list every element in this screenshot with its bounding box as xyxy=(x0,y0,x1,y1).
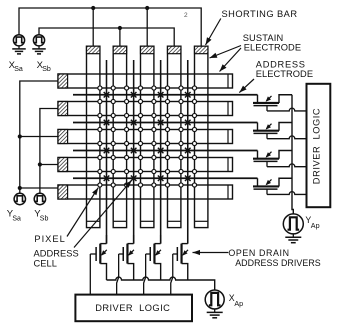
shorting bar hatched cap, column 2 xyxy=(113,46,126,54)
right pad line, row 1 xyxy=(227,74,229,88)
svg-text:Sb: Sb xyxy=(40,216,49,223)
wire drop to column 1 cap xyxy=(92,8,94,46)
right pad line, row 3 xyxy=(227,130,229,144)
pulse source YAp xyxy=(283,214,303,234)
wire source bus to YAp (vertical, with hops over gate wires) xyxy=(292,95,293,214)
address electrode column 3 (thin vertical wire) xyxy=(160,60,162,244)
svg-text:Ap: Ap xyxy=(234,299,243,308)
transistor Q1 (right open-drain driver, row 1) xyxy=(253,95,307,111)
bottom pad line, column 3 xyxy=(141,220,154,222)
hatched cap, row 3 xyxy=(58,130,68,144)
address electrode column 1 (thin vertical wire) xyxy=(106,60,108,244)
pixels (small circles at electrode edge crossings) xyxy=(98,86,102,90)
sustain electrode column 3 (vertical bar) xyxy=(141,46,154,227)
hatched cap, row 4 xyxy=(58,158,68,172)
svg-text:DRIVER LOGIC: DRIVER LOGIC xyxy=(312,108,322,184)
bottom pad line, column 5 xyxy=(195,220,208,222)
svg-text:Sa: Sa xyxy=(12,216,21,223)
driver logic box (right) xyxy=(307,84,331,207)
transistor Q4 (right open-drain driver, row 4) xyxy=(253,178,307,194)
driver logic box (bottom) xyxy=(75,295,192,322)
svg-text:Sb: Sb xyxy=(42,66,51,73)
svg-text:ADDRESS DRIVERS: ADDRESS DRIVERS xyxy=(235,258,321,268)
sustain electrode row 1 (horizontal bar) xyxy=(58,74,233,88)
shorting bar hatched cap, column 5 xyxy=(195,46,208,54)
wire to row 4 cap xyxy=(40,164,58,166)
wire Y sustain bus A (YSa to odd rows) xyxy=(20,81,58,193)
node bus B / row 4 xyxy=(38,162,42,166)
transistor Q3 (right open-drain driver, row 3) xyxy=(253,151,307,167)
sustain electrode column 1 (vertical bar) xyxy=(87,46,100,227)
wire X sustain bus A (XSa to odd columns) xyxy=(19,8,201,46)
address electrode row 3 (thin horizontal wire) xyxy=(73,150,258,152)
node bus A / row 3 xyxy=(18,134,22,138)
hatched cap, row 5 xyxy=(58,185,68,199)
svg-text:Ap: Ap xyxy=(311,221,320,230)
address electrode column 2 (thin vertical wire) xyxy=(133,60,135,244)
pulse source XAp xyxy=(205,290,224,309)
wire X sustain bus B (XSb to even columns) xyxy=(39,28,174,46)
pulse source XSb xyxy=(33,35,44,46)
shorting bar hatched cap, column 1 xyxy=(87,46,100,54)
ground (YAp) xyxy=(292,234,294,237)
wire source bus to XAp (horizontal, with hops over gate wires) xyxy=(107,277,215,290)
wire to row 3 cap xyxy=(20,136,58,138)
transistor Q6 (bottom open-drain driver, column 2) xyxy=(117,235,134,295)
node bus B / column 2 xyxy=(118,26,122,30)
sustain electrode row 4 (horizontal bar) xyxy=(58,158,233,172)
svg-text:SHORTING BAR: SHORTING BAR xyxy=(222,9,298,19)
sustain electrode row 2 (horizontal bar) xyxy=(58,102,233,116)
node bus A / column 1 xyxy=(91,6,95,10)
ground (XAp) xyxy=(214,309,216,312)
svg-text:PIXEL: PIXEL xyxy=(34,234,65,244)
right pad line, row 2 xyxy=(227,102,229,116)
transistor Q8 (bottom open-drain driver, column 4) xyxy=(171,235,188,295)
svg-text:ADDRESS: ADDRESS xyxy=(256,60,306,70)
sustain electrode column 5 (vertical bar) xyxy=(195,46,208,227)
wire to row 5 cap xyxy=(20,187,58,189)
pulse source YSb xyxy=(34,193,45,204)
svg-text:OPEN DRAIN: OPEN DRAIN xyxy=(228,248,289,258)
svg-text:SUSTAIN: SUSTAIN xyxy=(243,33,284,43)
address electrode column 4 (thin vertical wire) xyxy=(187,60,189,244)
address electrode row 4 (thin horizontal wire) xyxy=(73,177,258,179)
transistor Q2 (right open-drain driver, row 2) xyxy=(253,123,307,139)
leader arrow to pixel xyxy=(67,188,98,237)
pulse source XSa xyxy=(13,35,24,46)
wire drop to column 3 cap xyxy=(146,8,148,46)
ground (XSa) xyxy=(18,46,20,49)
node bus A / row 5 xyxy=(18,186,22,190)
bottom pad line, column 2 xyxy=(113,220,126,222)
leader arrow to open drain drivers xyxy=(193,252,229,254)
leader arrow to address electrode xyxy=(239,79,254,93)
sustain electrode column 2 (vertical bar) xyxy=(113,46,126,227)
svg-text:ELECTRODE: ELECTRODE xyxy=(256,69,313,79)
svg-text:Sa: Sa xyxy=(14,66,23,73)
leader arrow to shorting bar xyxy=(206,19,221,46)
right pad line, row 4 xyxy=(227,158,229,172)
svg-text:ELECTRODE: ELECTRODE xyxy=(244,43,301,53)
pulse source YSa xyxy=(14,193,25,204)
transistor Q5 (bottom open-drain driver, column 1) xyxy=(90,235,107,295)
hatched cap, row 1 xyxy=(58,74,68,88)
ground (XSb) xyxy=(38,46,40,49)
bottom pad line, column 4 xyxy=(168,220,181,222)
address electrode row 1 (thin horizontal wire) xyxy=(73,94,258,96)
shorting bar hatched cap, column 3 xyxy=(141,46,154,54)
right pad line, row 5 xyxy=(227,185,229,199)
transistor Q7 (bottom open-drain driver, column 3) xyxy=(144,235,161,295)
svg-text:2: 2 xyxy=(184,12,188,19)
address electrode row 2 (thin horizontal wire) xyxy=(73,122,258,124)
svg-text:ADDRESS: ADDRESS xyxy=(34,249,79,259)
shorting bar hatched cap, column 4 xyxy=(168,46,181,54)
hatched cap, row 2 xyxy=(58,102,68,116)
leader arrow to address cell xyxy=(74,180,132,247)
wire Y sustain bus B (YSb to even rows) xyxy=(40,109,58,194)
node bus A / column 3 xyxy=(145,6,149,10)
sustain electrode column 4 (vertical bar) xyxy=(168,46,181,227)
sustain electrode row 5 (horizontal bar) xyxy=(58,185,233,199)
svg-text:CELL: CELL xyxy=(34,258,57,268)
address cells (asterisk marks at address wire crossings) xyxy=(104,92,110,98)
leader arrows to sustain electrodes xyxy=(210,46,242,59)
sustain electrode row 3 (horizontal bar) xyxy=(58,130,233,144)
bottom pad line, column 1 xyxy=(87,220,100,222)
svg-text:DRIVER LOGIC: DRIVER LOGIC xyxy=(95,303,170,313)
wire drop to column 2 cap xyxy=(119,28,121,46)
